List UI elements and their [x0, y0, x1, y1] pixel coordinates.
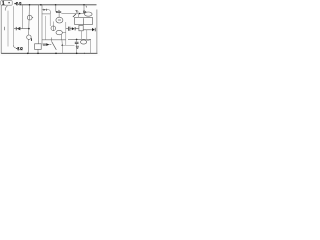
diode D2 (points right): [43, 9, 46, 11]
wire cap left: [66, 28, 68, 30]
input arc bottom: [13, 45, 15, 48]
wire left B: [12, 6, 14, 45]
wire v x78.6: [78, 14, 80, 18]
arrow input tail: [43, 44, 46, 46]
diode D4 (points right): [92, 28, 95, 31]
junction dot g: [79, 13, 81, 15]
junction dot mid e: [62, 45, 64, 47]
junction dot plate: [56, 11, 58, 13]
junction node dot b: [28, 28, 30, 30]
tube V3 lead: [58, 13, 60, 18]
diode D3 (points right): [72, 27, 75, 30]
label dash: [8, 2, 10, 3]
tube V3 top mark: [58, 10, 60, 11]
wire v x84 top: [83, 5, 85, 12]
tube V2 electrode: [30, 38, 32, 41]
wire v x61.3: [60, 34, 62, 39]
transformer T1 core box: [75, 17, 93, 24]
tube V1 envelope: [27, 15, 32, 20]
arrow input stub: [50, 44, 52, 46]
junction dot bottom rail d: [76, 53, 78, 55]
tube V4 top lead: [52, 22, 54, 27]
switch pivot stem: [51, 38, 53, 42]
diode D2 cathode bar: [45, 9, 47, 11]
input arc top: [5, 6, 7, 11]
right edge wire: [96, 10, 98, 54]
node -E/2 label: [16, 47, 23, 50]
page background: [0, 0, 100, 56]
junction dot bottom rail b: [37, 53, 39, 55]
wire L1 right corner: [87, 40, 91, 54]
junction dot bottom rail c: [55, 53, 57, 55]
arrow input head: [46, 43, 49, 46]
wire hz y39.3: [42, 39, 66, 41]
bottom supply rail: [1, 52, 97, 54]
capacitor C2 plate 1: [75, 41, 79, 43]
capacitor C2 plate 2: [75, 43, 79, 45]
wire v x50: [49, 14, 51, 26]
wire column x29.4: [28, 5, 29, 54]
lamp L1 envelope: [81, 40, 87, 44]
tube V1 electrode: [29, 15, 31, 20]
wire v x65.2 mid: [65, 22, 67, 45]
tube V5 envelope: [56, 30, 62, 34]
wire D3 to R2: [75, 28, 79, 30]
capacitor C1 plate 2: [69, 27, 71, 31]
diode D3 cathode bar: [74, 27, 76, 30]
wire hz y39.3: [68, 38, 91, 40]
capacitor C1 plate 1: [67, 27, 69, 31]
wire left A: [7, 11, 9, 47]
diode D1 (points left): [17, 27, 20, 30]
wire D2: [42, 10, 50, 14]
wire D1 to node: [14, 28, 28, 30]
wire hz y45.3: [62, 44, 74, 46]
wire R2 down: [81, 31, 83, 40]
winding label a: [86, 6, 87, 8]
figure number box "1": [1, 1, 13, 6]
tube V3 plate bar: [57, 12, 61, 13]
wire column x41.9: [41, 5, 43, 44]
capacitor C2 label mark: [76, 46, 79, 49]
wire stub left: [3, 27, 5, 30]
junction dot top rail f: [83, 4, 85, 6]
switch lever S1: [52, 42, 57, 50]
junction dot top rail a: [29, 4, 31, 6]
junction dot h: [76, 39, 78, 41]
wire hz y13.9: [42, 13, 50, 15]
tube V4 electrode: [52, 26, 54, 31]
tube V4 envelope: [51, 26, 56, 31]
wire anode V3: [55, 5, 57, 12]
tube V1 side tick: [32, 16, 33, 18]
wire V5 out: [62, 32, 65, 34]
wire C2 bottom: [76, 44, 78, 54]
transformer T1 core bar: [82, 18, 84, 24]
transformer T1 winding: [85, 12, 93, 16]
junction dot bottom rail a: [27, 53, 29, 55]
wire v to rail: [61, 45, 63, 53]
diode D1 cathode bar: [15, 27, 17, 30]
top supply rail: [20, 4, 97, 6]
resistor R1 box: [35, 44, 42, 50]
tube V3 grid bar: [58, 19, 61, 21]
wire C2 top: [76, 39, 78, 42]
tube V3 envelope: [56, 17, 63, 23]
left border wire: [0, 5, 2, 53]
tube V2 envelope: [27, 35, 31, 39]
wire v x45.7: [45, 16, 47, 40]
diode D4 cathode bar: [94, 28, 96, 32]
node +E/2 label: [14, 2, 21, 5]
label 1: [2, 1, 4, 4]
wire v x61.8: [61, 40, 63, 45]
junction dot bottom rail e: [84, 53, 85, 54]
wire hz y13.6: [61, 13, 84, 15]
wire R1 to rail: [37, 49, 39, 53]
resistor R2 box: [79, 25, 83, 30]
junction dot top rail d: [55, 4, 57, 6]
wire R2 right: [83, 29, 92, 31]
wire cap right: [70, 28, 72, 30]
transformer label Tp: [75, 11, 78, 13]
transistor arrow Q1: [73, 14, 76, 17]
wire v x86.8: [86, 30, 88, 40]
wire column x22.5: [22, 5, 24, 29]
winding label D: [84, 11, 86, 13]
wire column x38.6: [38, 5, 40, 44]
junction dot top rail c: [40, 4, 42, 6]
